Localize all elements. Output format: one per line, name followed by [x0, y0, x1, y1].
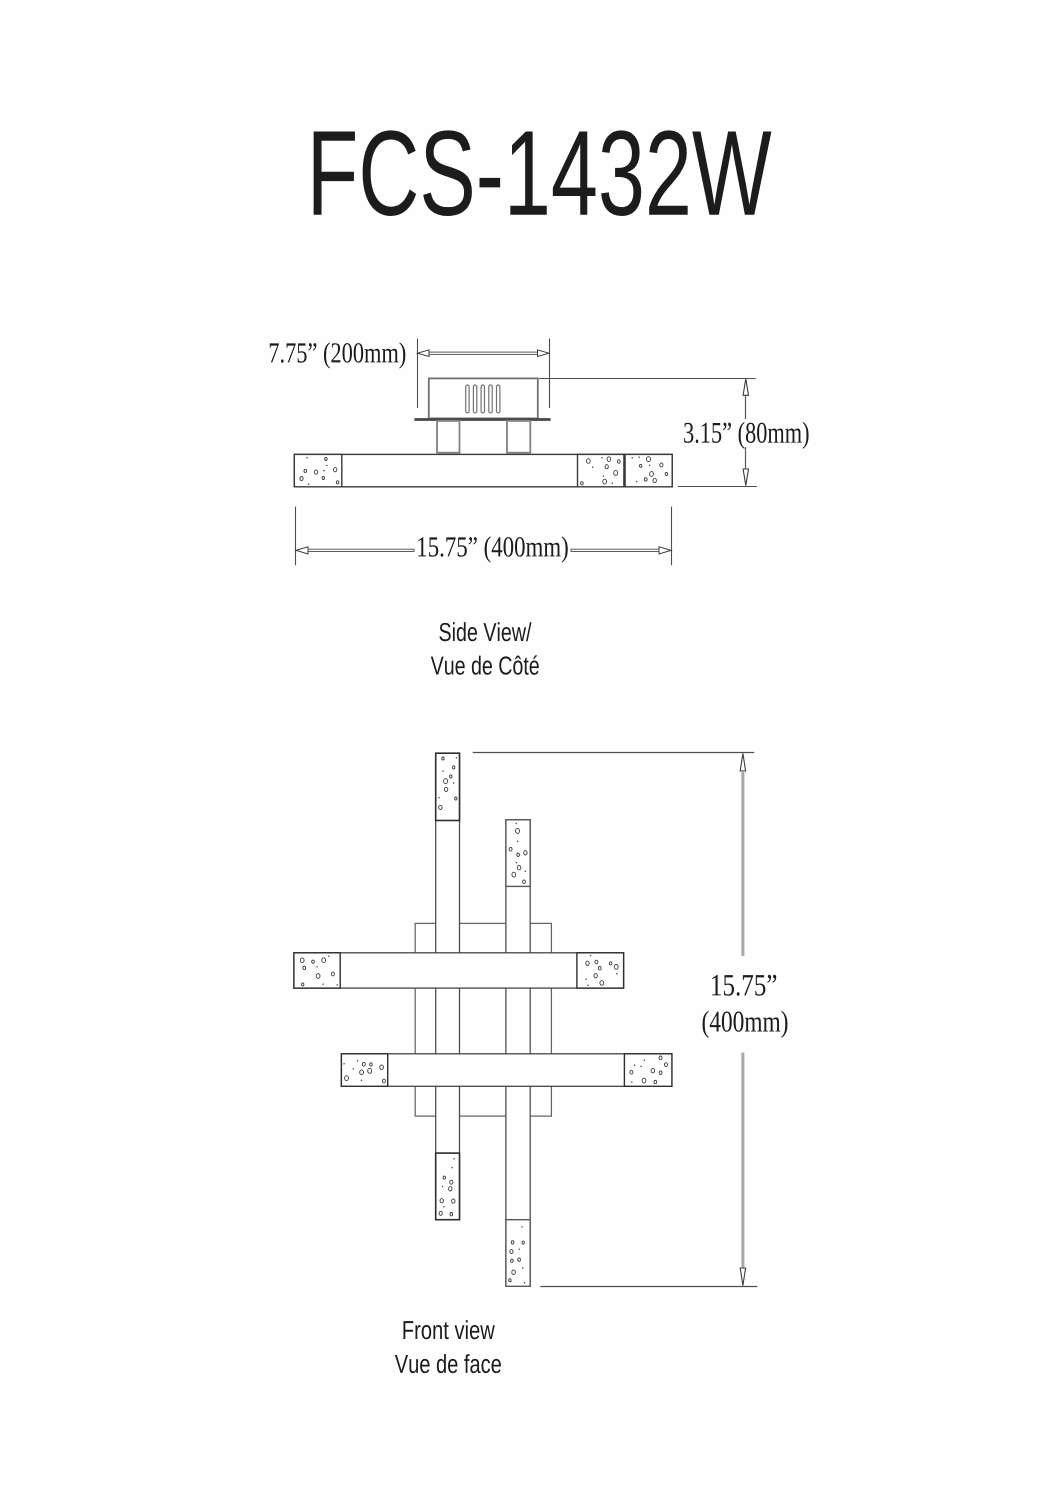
- speckled cap top of left vertical bar: [436, 753, 460, 820]
- front dimension text (400mm): [703, 1011, 788, 1038]
- label Side View: [439, 622, 531, 641]
- speckled section bottom of left vertical bar: [436, 1153, 460, 1220]
- dimension 3.15in bottom extension line: [678, 486, 757, 488]
- dimension text 7.75" (200mm): [270, 342, 406, 368]
- speckled block right outer (side bar): [625, 454, 672, 486]
- speckled block left end of lower horizontal bar: [341, 1054, 387, 1087]
- speckled block right end of upper horizontal bar: [577, 953, 624, 988]
- dimension text 15.75" (400mm): [418, 536, 567, 562]
- dimension 15.75in arrowhead left: [296, 547, 308, 554]
- dimension 7.75in (200mm) extension line right: [549, 339, 551, 409]
- dimension 3.15in upper shaft: [745, 394, 747, 419]
- front dimension upper shaft: [741, 771, 744, 956]
- speckled block right end of lower horizontal bar: [624, 1054, 672, 1087]
- canopy vent slots: [466, 385, 500, 413]
- dimension 15.75in left shaft: [307, 549, 414, 551]
- vertical bar right (front view): [506, 820, 530, 1287]
- central square frame (front view): [415, 923, 551, 1116]
- dimension 7.75in arrowhead right: [538, 350, 550, 357]
- dimension 7.75in (200mm) extension line left: [417, 339, 419, 409]
- front dimension lower shaft: [741, 1053, 744, 1269]
- label Front view: [403, 1320, 494, 1339]
- label Vue de Cote: [431, 655, 539, 674]
- speckled cap top of right vertical bar: [506, 820, 530, 887]
- dimension 3.15in arrow up: [743, 379, 748, 396]
- front dimension arrow up: [740, 753, 745, 771]
- label Vue de face: [395, 1354, 501, 1373]
- dimension 15.75in right shaft: [571, 549, 660, 551]
- dimension 7.75in (200mm) shaft: [429, 352, 539, 354]
- dimension 3.15in top extension line: [539, 378, 756, 380]
- dimension 7.75in arrowhead left: [418, 350, 430, 357]
- front dimension top extension line: [473, 752, 754, 754]
- vertical bar left (front view): [436, 753, 460, 1219]
- front dimension arrow down: [740, 1268, 745, 1286]
- horizontal bar upper (front view): [294, 953, 624, 988]
- dimension 3.15in arrow down: [743, 469, 748, 486]
- dimension 15.75in extension line left: [295, 507, 297, 566]
- canopy box (side view): [429, 378, 538, 418]
- dimension 15.75in arrowhead right: [659, 547, 671, 554]
- front dimension bottom extension line: [540, 1286, 757, 1288]
- stem left: [437, 421, 460, 453]
- title FCS-1432W: [314, 130, 772, 216]
- speckled section bottom of right vertical bar: [506, 1220, 530, 1287]
- horizontal bar lower (front view): [341, 1054, 672, 1087]
- speckled block right inner (side bar): [578, 454, 624, 486]
- ceiling plate: [414, 418, 550, 421]
- dimension text 3.15" (80mm): [684, 422, 808, 449]
- stem right: [507, 421, 530, 453]
- speckled block left (side bar): [294, 454, 342, 486]
- dimension 3.15in lower shaft: [745, 447, 747, 470]
- speckled block left end of upper horizontal bar: [294, 953, 340, 988]
- main bar (side view): [294, 454, 672, 486]
- dimension 15.75in extension line right: [671, 507, 673, 566]
- front dimension text 15.75": [712, 975, 776, 996]
